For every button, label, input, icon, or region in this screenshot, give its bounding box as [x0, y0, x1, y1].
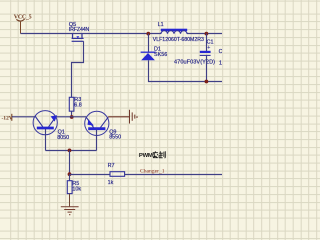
svg-text:470uF03V(Y2D): 470uF03V(Y2D) [174, 59, 215, 65]
wire R5 bottom lead [69, 194, 71, 207]
wire junction to R7 [70, 174, 111, 176]
ground right (signal ground) [130, 110, 138, 124]
svg-text:R7: R7 [108, 163, 115, 169]
svg-text:SK56: SK56 [154, 52, 167, 58]
diode D1 [141, 47, 168, 61]
svg-text:Changer_1: Changer_1 [140, 169, 165, 175]
svg-text:6.8: 6.8 [74, 103, 82, 109]
CJK glyph kong [153, 151, 159, 157]
resistor R5 [67, 181, 81, 194]
transistor Q1 [33, 111, 69, 142]
wire top rail right [187, 33, 222, 35]
wire R3 to mid rail [71, 111, 73, 117]
wire Q1 base down [45, 129, 47, 151]
svg-text:1: 1 [219, 60, 222, 66]
wire R5 top lead [69, 175, 71, 181]
ground bottom (power ground) [61, 207, 79, 215]
wire D1 top lead [148, 34, 150, 52]
junction D1 top [146, 32, 150, 36]
junction C1 top [205, 32, 209, 36]
junction C1 bottom [205, 80, 209, 84]
wire C1 bottom lead [206, 55, 208, 81]
wire top rail left [21, 33, 162, 35]
wire Q9 to ground [108, 116, 129, 118]
svg-text:10k: 10k [72, 186, 81, 192]
junction R3/mid [70, 115, 74, 119]
transistor Q9 [85, 111, 121, 140]
wire D1 bottom / bottom rail [149, 60, 223, 81]
junction R5/R7 [68, 172, 72, 176]
junction center [68, 149, 72, 153]
wire Q1 emitter to Q9 [56, 116, 86, 118]
svg-text:8550: 8550 [109, 135, 121, 141]
capacitor C1 [174, 39, 215, 65]
wire center drop [69, 151, 71, 175]
svg-text:1k: 1k [108, 180, 114, 186]
mosfet Q5 [69, 22, 90, 41]
wire gate path [72, 41, 84, 97]
svg-text:L1: L1 [158, 22, 164, 28]
resistor R7 [108, 163, 125, 186]
svg-text:IRFZ44N: IRFZ44N [69, 27, 90, 33]
svg-text:VLF12060T-680M2R3: VLF12060T-680M2R3 [153, 37, 204, 43]
svg-text:C: C [219, 49, 222, 55]
svg-text:PWM1: PWM1 [139, 153, 157, 159]
wire bottom rail between bases [46, 150, 97, 152]
wire -12V to Q1 [12, 116, 35, 118]
power port VCC_5 [14, 15, 32, 34]
power port -12V [2, 114, 14, 122]
inductor L1 [153, 22, 204, 43]
wire Changer_1 [125, 174, 222, 176]
label PWM1 control [139, 151, 165, 159]
svg-text:+: + [207, 45, 210, 51]
CJK glyph zhi [159, 151, 165, 158]
wire C1 top lead [206, 34, 208, 52]
resistor R3 [69, 97, 82, 111]
wire Q9 base down [96, 130, 98, 151]
svg-text:8050: 8050 [57, 135, 69, 141]
